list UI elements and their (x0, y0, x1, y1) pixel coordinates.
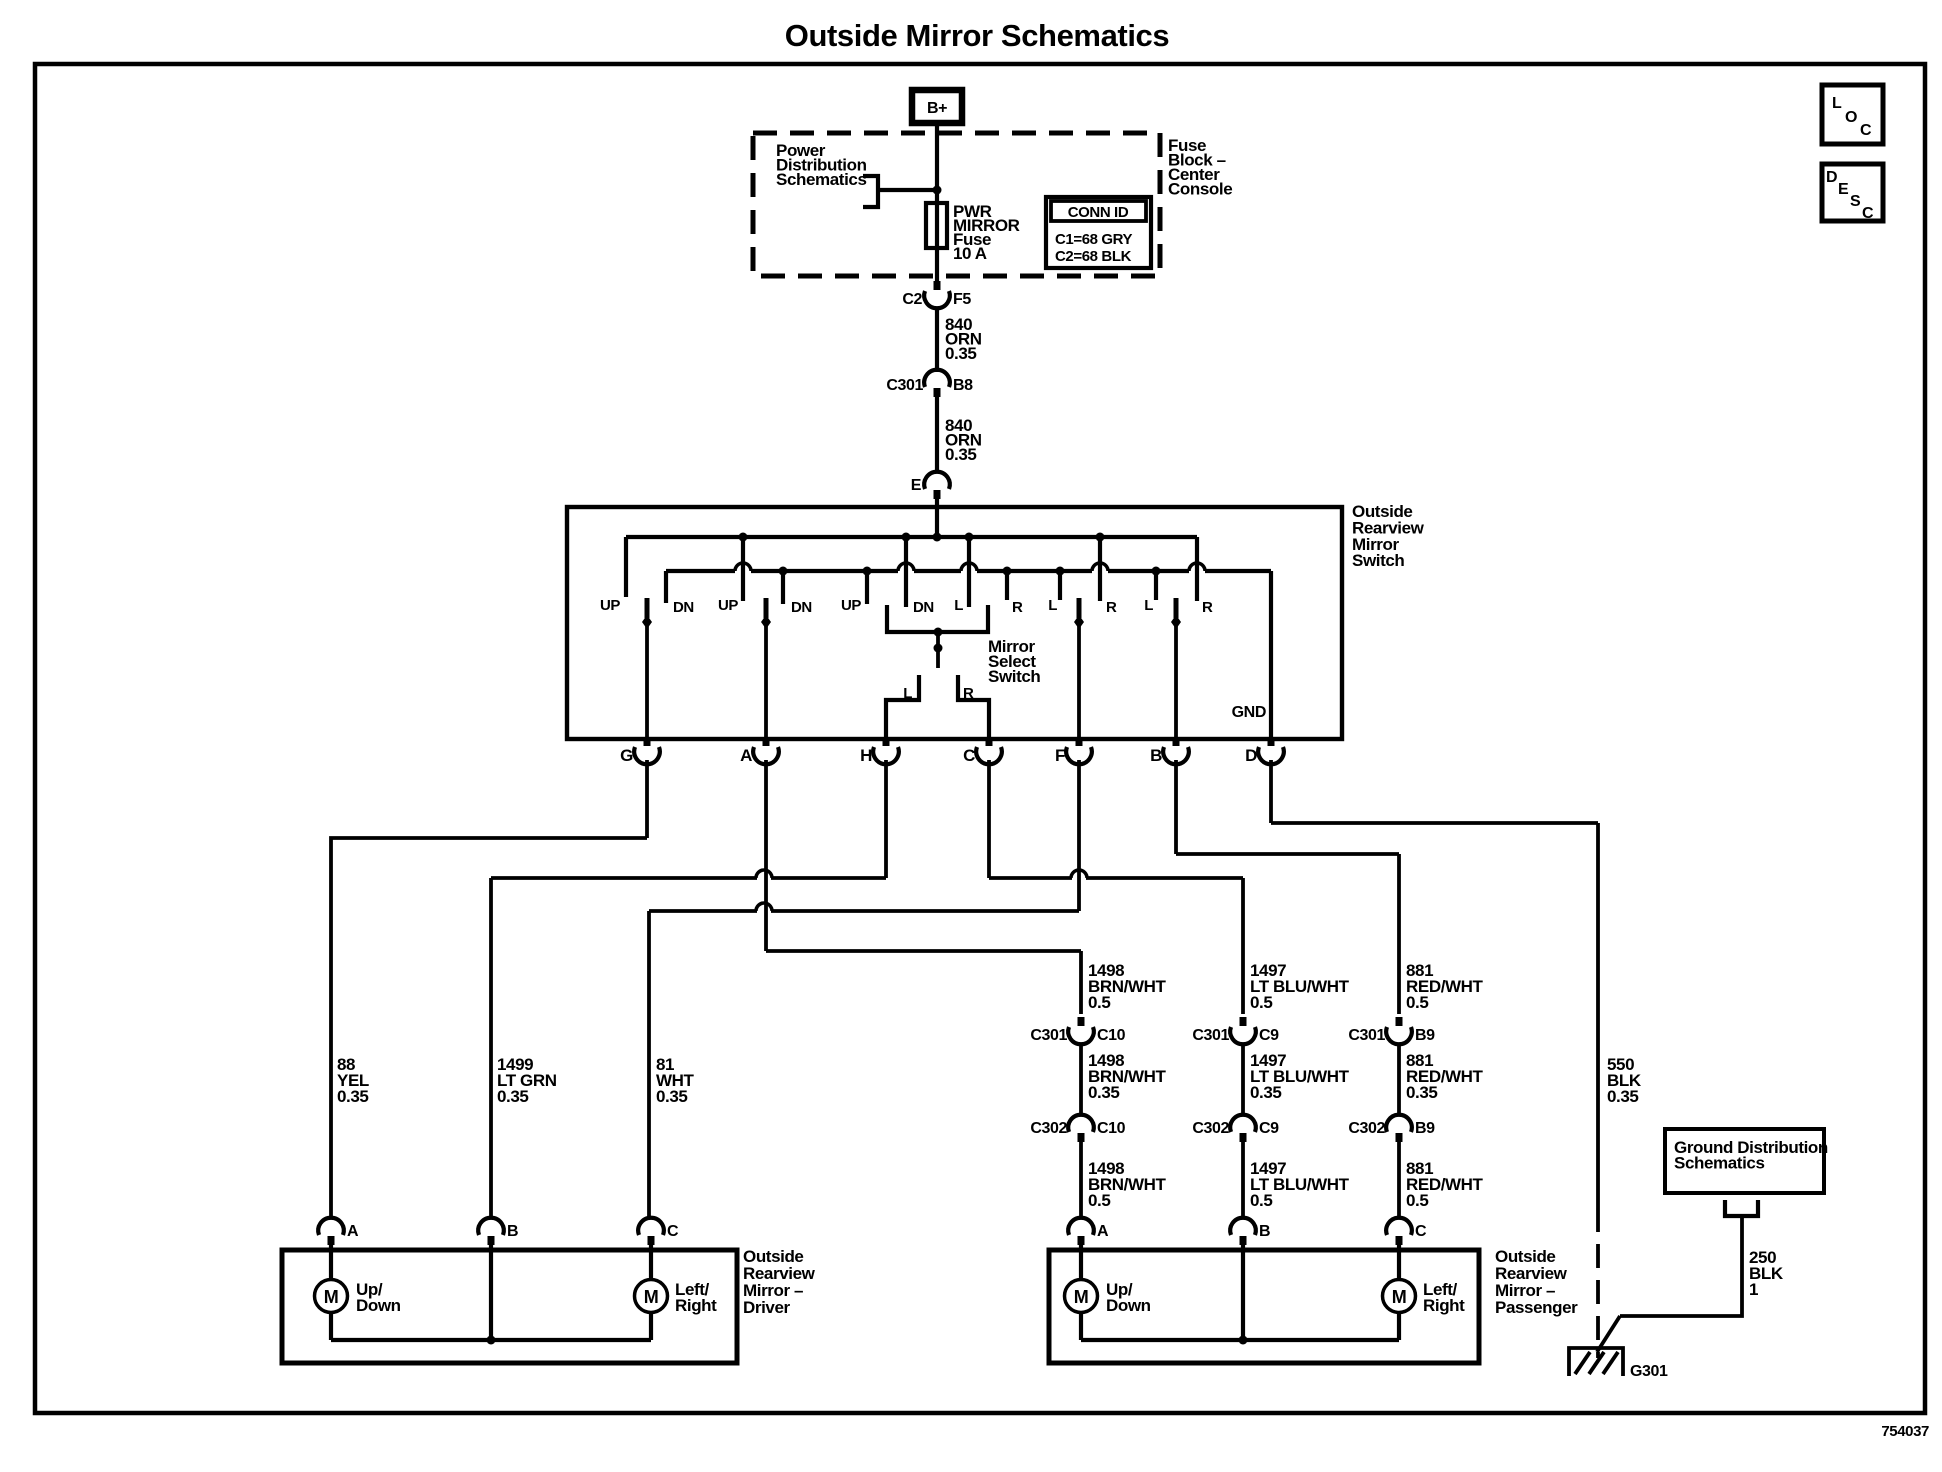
svg-text:C2=68 BLK: C2=68 BLK (1055, 248, 1132, 265)
svg-text:C: C (963, 746, 975, 765)
svg-text:C2: C2 (902, 291, 922, 308)
svg-text:CONN ID: CONN ID (1068, 204, 1129, 221)
connector C2 / F5 (902, 281, 971, 308)
label L 1 (954, 597, 963, 614)
svg-text:H: H (860, 746, 872, 765)
svg-text:L: L (1832, 95, 1842, 112)
wire pin F to driver mirror pin C (81 WHT) (649, 760, 1079, 1219)
svg-text:B9: B9 (1415, 1120, 1435, 1137)
label PWR MIRROR Fuse 10 A (953, 202, 1020, 263)
svg-text:Switch: Switch (1352, 551, 1404, 570)
label UP 3 (841, 597, 861, 614)
svg-text:Schematics: Schematics (1674, 1154, 1765, 1173)
svg-text:Right: Right (675, 1296, 717, 1315)
svg-text:C: C (1860, 122, 1872, 139)
svg-text:L: L (954, 597, 963, 614)
label L 2 (1048, 597, 1057, 614)
label UP 2 (718, 597, 738, 614)
connector pin H of mirror switch (860, 737, 899, 765)
svg-text:B: B (507, 1223, 518, 1240)
switch contact stub L (pin B side, ground) (1152, 567, 1161, 601)
passenger left/right motor M (1383, 1245, 1416, 1340)
connector C301 / B8 (886, 370, 973, 397)
connector pin G of mirror switch (620, 737, 660, 765)
switch contact stub UP (select side, ground) (863, 567, 872, 605)
svg-text:0.35: 0.35 (656, 1087, 688, 1106)
label DN 2 (791, 599, 812, 616)
switch contact stub L (select side, power) (965, 533, 974, 608)
wire 1498 between C302 and mirror (1079, 1142, 1083, 1219)
svg-text:Driver: Driver (743, 1298, 791, 1317)
svg-text:C9: C9 (1259, 1120, 1279, 1137)
label Outside Rearview Mirror - Driver (743, 1247, 816, 1317)
wire fuse to C2 (935, 248, 939, 290)
svg-text:A: A (1097, 1223, 1109, 1240)
power node B+ (912, 90, 962, 123)
svg-text:R: R (963, 685, 974, 702)
switch contact stub DN (pin G side, ground) (664, 571, 668, 603)
svg-text:C10: C10 (1097, 1027, 1126, 1044)
label select L (903, 685, 912, 702)
ground G301 symbol (1569, 1348, 1623, 1376)
svg-text:B: B (1150, 746, 1162, 765)
mirror select switch wiper (934, 632, 943, 668)
fuse PWR MIRROR 10 A (926, 203, 947, 248)
connector C302 / C10 (1030, 1115, 1125, 1142)
label Left/Right passenger (1423, 1280, 1465, 1315)
wire B+ to fuse (935, 123, 939, 203)
svg-text:0.35: 0.35 (497, 1087, 529, 1106)
svg-text:C301: C301 (1348, 1027, 1385, 1044)
label wire 1499 LT GRN 0.35 (497, 1055, 557, 1106)
label Left/Right driver (675, 1280, 717, 1315)
wire pin H to driver mirror pin B (1499 LT GRN) (491, 760, 886, 1219)
label wire 550 BLK 0.35 (1607, 1055, 1642, 1106)
driver mirror connector pin B (478, 1218, 518, 1245)
switch contact stub DN (select side, power) (902, 533, 911, 608)
switch power bus (from E) (626, 535, 1197, 539)
svg-text:0.35: 0.35 (1607, 1087, 1639, 1106)
label wire 881 RED/WHT 0.5 (lower) (1406, 1159, 1484, 1210)
svg-text:0.5: 0.5 (1406, 1191, 1428, 1210)
fuse block dashed box (Fuse Block - Center Console) (753, 133, 1160, 276)
label Up/Down driver (356, 1280, 401, 1315)
switch contact stub UP (pin G side, power) (624, 537, 628, 597)
svg-text:0.35: 0.35 (337, 1087, 369, 1106)
svg-text:DN: DN (913, 599, 934, 616)
label DN 3 (913, 599, 934, 616)
junction dot at fuse feed (933, 186, 942, 195)
svg-text:B+: B+ (927, 100, 947, 117)
mirror select contact L to pin H (886, 675, 919, 739)
wire 1498 between C301 and C302 (1079, 1045, 1083, 1114)
svg-text:O: O (1845, 109, 1857, 126)
svg-text:C301: C301 (886, 377, 923, 394)
wire 550 BLK dashed section to G301 (1596, 1208, 1600, 1358)
connector C302 / B9 (1348, 1115, 1435, 1142)
wire E into switch (935, 499, 939, 537)
driver mirror connector pin A (318, 1218, 359, 1245)
svg-text:A: A (740, 746, 752, 765)
svg-text:C10: C10 (1097, 1120, 1126, 1137)
mirror select switch bracket (887, 605, 988, 637)
wire pin G to driver mirror pin A (88 YEL) (331, 760, 647, 1219)
driver up/down motor M (315, 1245, 348, 1340)
svg-text:C302: C302 (1192, 1120, 1229, 1137)
connector C302 / C9 (1192, 1115, 1279, 1142)
passenger mirror connector pin B (1230, 1218, 1270, 1245)
svg-text:B9: B9 (1415, 1027, 1435, 1044)
wire 1497 between C302 and mirror (1241, 1142, 1245, 1219)
svg-text:754037: 754037 (1881, 1423, 1929, 1440)
svg-text:C302: C302 (1348, 1120, 1385, 1137)
svg-text:UP: UP (841, 597, 861, 614)
svg-text:M: M (1392, 1287, 1407, 1307)
svg-text:M: M (644, 1287, 659, 1307)
label Outside Rearview Mirror Switch (1352, 502, 1425, 570)
connector pin B of mirror switch (1150, 737, 1189, 765)
svg-text:G301: G301 (1630, 1363, 1668, 1380)
svg-text:Console: Console (1168, 180, 1232, 199)
svg-text:C1=68 GRY: C1=68 GRY (1055, 231, 1133, 248)
label R 3 (1202, 599, 1213, 616)
label L 3 (1144, 597, 1153, 614)
svg-text:R: R (1106, 599, 1117, 616)
connector C301 / C10 (1030, 1017, 1125, 1044)
svg-text:0.35: 0.35 (945, 445, 977, 464)
connector pin F of mirror switch (1055, 737, 1092, 765)
switch wiper contact for pin B (1171, 598, 1181, 739)
outside rearview mirror passenger box (1049, 1250, 1479, 1363)
driver mirror motor common rail (331, 1336, 651, 1345)
svg-text:Down: Down (356, 1296, 401, 1315)
connector pin A of mirror switch (740, 737, 779, 765)
svg-text:DN: DN (791, 599, 812, 616)
svg-text:G: G (620, 746, 633, 765)
svg-text:L: L (1048, 597, 1057, 614)
svg-text:L: L (903, 685, 912, 702)
svg-text:B8: B8 (953, 377, 973, 394)
wire 840 ORN 0.35 lower (935, 397, 939, 473)
svg-text:A: A (347, 1223, 359, 1240)
label wire 1498 BRN/WHT 0.5 (lower) (1088, 1159, 1166, 1210)
label wire 81 WHT 0.35 (656, 1055, 695, 1106)
label Outside Rearview Mirror - Passenger (1495, 1247, 1578, 1317)
wire 1497 between C301 and C302 (1241, 1045, 1245, 1114)
svg-text:M: M (1074, 1287, 1089, 1307)
label wire 1497 LT BLU/WHT 0.5 (upper) (1250, 961, 1350, 1012)
wire 881 between C302 and mirror (1397, 1142, 1401, 1219)
mirror select contact R to pin C (958, 675, 989, 739)
connector C301 / B9 (1348, 1017, 1435, 1044)
svg-text:Schematics: Schematics (776, 170, 867, 189)
switch contact stub R (pin B side, power) (1195, 537, 1199, 601)
switch contact stub DN (pin A side, ground) (779, 567, 788, 605)
svg-text:C: C (667, 1223, 679, 1240)
svg-text:B: B (1259, 1223, 1270, 1240)
svg-text:E: E (1838, 181, 1849, 198)
ground distribution continuation bracket (1725, 1200, 1758, 1216)
svg-text:C: C (1862, 205, 1874, 222)
svg-text:S: S (1850, 193, 1861, 210)
svg-text:0.35: 0.35 (945, 344, 977, 363)
svg-text:R: R (1012, 599, 1023, 616)
svg-text:F5: F5 (953, 291, 971, 308)
label wire 881 RED/WHT 0.5 (upper) (1406, 961, 1484, 1012)
svg-text:10 A: 10 A (953, 244, 987, 263)
svg-text:0.5: 0.5 (1088, 993, 1110, 1012)
svg-text:C9: C9 (1259, 1027, 1279, 1044)
label wire 881 RED/WHT 0.35 (1406, 1051, 1484, 1102)
svg-text:C302: C302 (1030, 1120, 1067, 1137)
svg-text:Switch: Switch (988, 667, 1040, 686)
connector C301 / C9 (1192, 1017, 1279, 1044)
svg-text:F: F (1055, 746, 1065, 765)
svg-text:GND: GND (1232, 704, 1266, 721)
svg-text:0.35: 0.35 (1406, 1083, 1438, 1102)
svg-text:D: D (1826, 169, 1837, 186)
switch GND wire (1269, 571, 1273, 739)
driver mirror connector pin C (638, 1218, 679, 1245)
power distribution continuation bracket (863, 176, 878, 207)
svg-text:M: M (324, 1287, 339, 1307)
svg-text:1: 1 (1749, 1280, 1758, 1299)
label DN 1 (673, 599, 694, 616)
svg-text:0.5: 0.5 (1088, 1191, 1110, 1210)
label wire 1497 LT BLU/WHT 0.5 (lower) (1250, 1159, 1350, 1210)
title: Outside Mirror Schematics (785, 18, 1170, 53)
svg-text:L: L (1144, 597, 1153, 614)
svg-text:0.5: 0.5 (1406, 993, 1428, 1012)
connector E of mirror switch (911, 472, 950, 499)
outside rearview mirror switch box (567, 507, 1342, 739)
svg-text:C301: C301 (1030, 1027, 1067, 1044)
passenger mirror pin B internal wire (1241, 1245, 1245, 1340)
connector pin C of mirror switch (963, 737, 1002, 765)
wire bracket to B+ feed (878, 188, 937, 192)
junction dot E on power bus (933, 533, 942, 542)
label R 1 (1012, 599, 1023, 616)
page number 754037 (1881, 1423, 1929, 1440)
driver mirror pin B internal wire (489, 1245, 493, 1340)
wire 881 between C301 and C302 (1397, 1045, 1401, 1114)
switch ground bus (666, 563, 1271, 571)
passenger up/down motor M (1065, 1245, 1098, 1340)
label wire 1498 BRN/WHT 0.5 (upper) (1088, 961, 1166, 1012)
svg-text:DN: DN (673, 599, 694, 616)
wire 250 BLK 1 to ground (1597, 1216, 1742, 1352)
svg-text:0.5: 0.5 (1250, 1191, 1272, 1210)
wire pin C to passenger mirror pin B (1497 LT BLU/WHT) (989, 760, 1243, 1014)
label Mirror Select Switch (988, 637, 1040, 686)
label Fuse Block - Center Console (1168, 136, 1232, 199)
switch wiper contact for pin F (1074, 598, 1084, 739)
svg-text:C301: C301 (1192, 1027, 1229, 1044)
wire pin D to ground G301 (550 BLK) (1271, 760, 1598, 1208)
label Power Distribution Schematics (776, 141, 867, 189)
svg-text:Passenger: Passenger (1495, 1298, 1578, 1317)
label wire 840 ORN 0.35 lower (945, 416, 982, 464)
switch wiper contact for pin G (642, 598, 652, 739)
label UP 1 (600, 597, 620, 614)
label wire 250 BLK 1 (1749, 1248, 1784, 1299)
passenger mirror motor common rail (1081, 1336, 1399, 1345)
wire 840 ORN 0.35 upper (935, 308, 939, 372)
svg-text:Outside Mirror Schematics: Outside Mirror Schematics (785, 18, 1170, 53)
svg-text:R: R (1202, 599, 1213, 616)
label Up/Down passenger (1106, 1280, 1151, 1315)
passenger mirror connector pin A (1068, 1218, 1109, 1245)
outside rearview mirror driver box (282, 1250, 737, 1363)
label R 2 (1106, 599, 1117, 616)
switch contact stub R (pin C side, ground) (1003, 567, 1012, 601)
driver left/right motor M (635, 1245, 668, 1340)
svg-text:Right: Right (1423, 1296, 1465, 1315)
svg-text:C: C (1415, 1223, 1427, 1240)
svg-text:Down: Down (1106, 1296, 1151, 1315)
svg-text:E: E (911, 477, 922, 494)
wire pin B to passenger mirror pin C (881 RED/WHT) (1176, 760, 1399, 1014)
ground distribution schematics box (1665, 1129, 1828, 1193)
label GND (1232, 704, 1266, 721)
svg-text:D: D (1245, 746, 1257, 765)
svg-text:0.5: 0.5 (1250, 993, 1272, 1012)
svg-text:UP: UP (600, 597, 620, 614)
passenger mirror connector pin C (1386, 1218, 1427, 1245)
svg-text:UP: UP (718, 597, 738, 614)
label wire 1497 LT BLU/WHT 0.35 (1250, 1051, 1350, 1102)
switch contact stub R (pin F side, power) (1096, 533, 1105, 602)
svg-text:0.35: 0.35 (1088, 1083, 1120, 1102)
label wire 88 YEL 0.35 (337, 1055, 369, 1106)
svg-text:0.35: 0.35 (1250, 1083, 1282, 1102)
connector pin D of mirror switch (1245, 737, 1284, 765)
switch contact stub L (pin F side, ground) (1056, 567, 1065, 601)
LOC legend box (1822, 85, 1883, 144)
label G301 (1630, 1363, 1668, 1380)
label wire 840 ORN 0.35 upper (945, 315, 982, 363)
DESC legend box (1822, 164, 1883, 222)
switch wiper contact for pin A (761, 598, 771, 739)
wire pin A to passenger mirror pin A (1498 BRN/WHT) (766, 760, 1081, 1014)
label select R (963, 685, 974, 702)
switch contact stub UP (pin A side, power) (739, 533, 748, 602)
label wire 1498 BRN/WHT 0.35 (1088, 1051, 1166, 1102)
CONN ID table box (1046, 197, 1151, 268)
